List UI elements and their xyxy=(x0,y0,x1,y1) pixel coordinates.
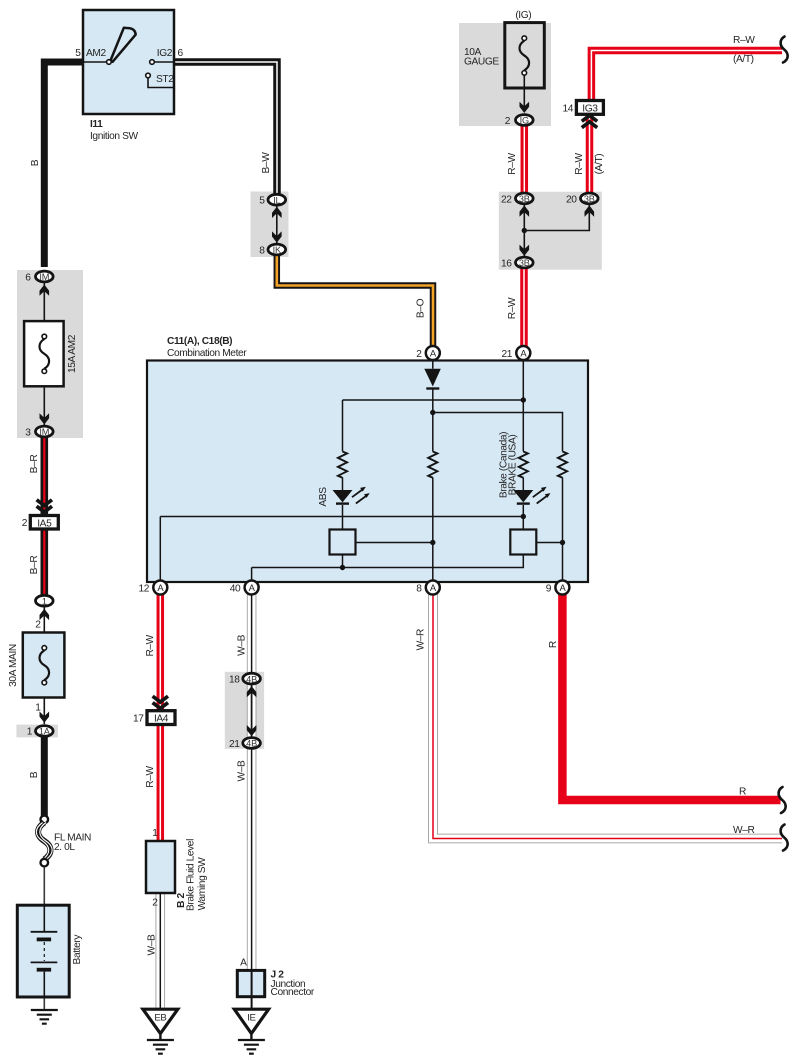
svg-text:2: 2 xyxy=(35,620,41,631)
svg-text:W–R: W–R xyxy=(733,825,754,836)
svg-text:A: A xyxy=(240,958,247,969)
svg-text:1: 1 xyxy=(152,828,158,839)
svg-text:W–B: W–B xyxy=(237,760,248,781)
svg-text:ABS: ABS xyxy=(318,487,329,507)
svg-text:C11(A), C18(B): C11(A), C18(B) xyxy=(167,336,232,347)
svg-text:IA5: IA5 xyxy=(37,518,52,529)
svg-text:16: 16 xyxy=(501,258,512,269)
svg-text:4B: 4B xyxy=(246,739,257,749)
svg-text:IE: IE xyxy=(247,1013,255,1024)
svg-text:B–W: B–W xyxy=(261,152,272,174)
svg-text:20: 20 xyxy=(566,194,577,205)
svg-text:B: B xyxy=(29,771,40,778)
svg-text:18: 18 xyxy=(229,675,240,686)
svg-text:EB: EB xyxy=(154,1013,166,1024)
svg-text:Ignition SW: Ignition SW xyxy=(90,131,138,142)
svg-text:B: B xyxy=(30,159,41,166)
svg-text:40: 40 xyxy=(230,584,241,595)
svg-text:R–W: R–W xyxy=(507,297,518,319)
svg-text:2: 2 xyxy=(152,898,158,909)
svg-text:IL: IL xyxy=(273,195,280,205)
svg-text:W–B: W–B xyxy=(237,634,248,655)
svg-text:2. 0L: 2. 0L xyxy=(54,842,75,853)
svg-text:(A/T): (A/T) xyxy=(594,154,605,175)
svg-text:IG3: IG3 xyxy=(582,103,598,114)
svg-text:1: 1 xyxy=(35,703,41,714)
svg-text:Battery: Battery xyxy=(72,934,83,965)
svg-text:IG: IG xyxy=(520,116,529,126)
svg-text:5: 5 xyxy=(259,196,265,207)
svg-text:14: 14 xyxy=(562,104,573,115)
svg-text:1: 1 xyxy=(27,727,33,738)
svg-text:BRAKE (USA): BRAKE (USA) xyxy=(507,435,518,496)
svg-text:6: 6 xyxy=(178,48,184,59)
svg-text:4B: 4B xyxy=(246,674,257,684)
svg-text:IK: IK xyxy=(273,245,282,255)
svg-text:(A/T): (A/T) xyxy=(733,54,754,65)
svg-text:R: R xyxy=(739,787,746,798)
svg-text:3B: 3B xyxy=(519,258,530,268)
svg-text:W–B: W–B xyxy=(147,934,158,955)
svg-text:2: 2 xyxy=(505,116,511,127)
svg-text:2: 2 xyxy=(22,518,28,529)
svg-text:GAUGE: GAUGE xyxy=(464,57,499,68)
svg-text:15A AM2: 15A AM2 xyxy=(67,334,78,373)
svg-text:1A: 1A xyxy=(39,727,51,737)
svg-text:R: R xyxy=(548,641,559,648)
svg-text:5: 5 xyxy=(75,48,81,59)
svg-text:9: 9 xyxy=(546,584,552,595)
svg-text:30A MAIN: 30A MAIN xyxy=(8,644,19,687)
svg-text:R–W: R–W xyxy=(574,153,585,175)
svg-text:IA4: IA4 xyxy=(154,714,169,725)
svg-text:21: 21 xyxy=(501,349,512,360)
svg-text:W–R: W–R xyxy=(416,629,427,650)
svg-text:R–W: R–W xyxy=(733,35,755,46)
svg-text:ST2: ST2 xyxy=(156,74,174,85)
svg-text:Combination Meter: Combination Meter xyxy=(167,348,247,359)
svg-text:2: 2 xyxy=(416,349,422,360)
svg-text:17: 17 xyxy=(133,714,144,725)
svg-text:IM: IM xyxy=(39,427,49,437)
svg-text:IG2: IG2 xyxy=(157,48,173,59)
svg-text:(IG): (IG) xyxy=(515,10,531,21)
svg-text:22: 22 xyxy=(501,194,512,205)
svg-text:IM: IM xyxy=(39,272,49,282)
svg-text:R–W: R–W xyxy=(145,634,156,656)
svg-text:8: 8 xyxy=(416,584,422,595)
svg-text:8: 8 xyxy=(259,246,265,257)
svg-text:B–R: B–R xyxy=(29,556,40,575)
svg-text:R–W: R–W xyxy=(507,153,518,175)
svg-text:3: 3 xyxy=(25,428,31,439)
svg-text:Connector: Connector xyxy=(271,987,315,998)
svg-text:I11: I11 xyxy=(90,119,103,130)
svg-text:B–O: B–O xyxy=(416,298,427,318)
svg-text:Warning SW: Warning SW xyxy=(197,857,208,911)
svg-text:12: 12 xyxy=(138,584,149,595)
svg-text:R–W: R–W xyxy=(145,766,156,788)
svg-text:21: 21 xyxy=(229,739,240,750)
svg-text:AM2: AM2 xyxy=(86,48,106,59)
svg-text:Brake Fluid Level: Brake Fluid Level xyxy=(185,839,196,911)
svg-text:3B: 3B xyxy=(584,194,595,204)
svg-text:3B: 3B xyxy=(519,194,530,204)
svg-text:6: 6 xyxy=(25,273,31,284)
svg-text:B–R: B–R xyxy=(29,455,40,474)
svg-text:1: 1 xyxy=(42,596,47,606)
